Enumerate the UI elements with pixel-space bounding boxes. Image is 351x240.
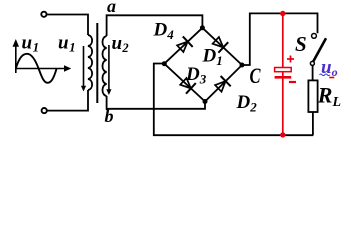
svg-text:D4: D4 [153, 20, 175, 43]
svg-text:u1: u1 [58, 32, 76, 54]
svg-text:RL: RL [317, 82, 341, 110]
svg-text:C: C [250, 63, 261, 88]
svg-text:b: b [105, 106, 114, 126]
svg-text:D1: D1 [202, 46, 223, 69]
svg-text:a: a [107, 0, 116, 16]
svg-text:u1: u1 [22, 32, 40, 54]
svg-text:D3: D3 [185, 64, 207, 87]
svg-text:D2: D2 [236, 92, 258, 115]
svg-text:S: S [295, 32, 307, 56]
svg-text:u2: u2 [112, 33, 129, 55]
